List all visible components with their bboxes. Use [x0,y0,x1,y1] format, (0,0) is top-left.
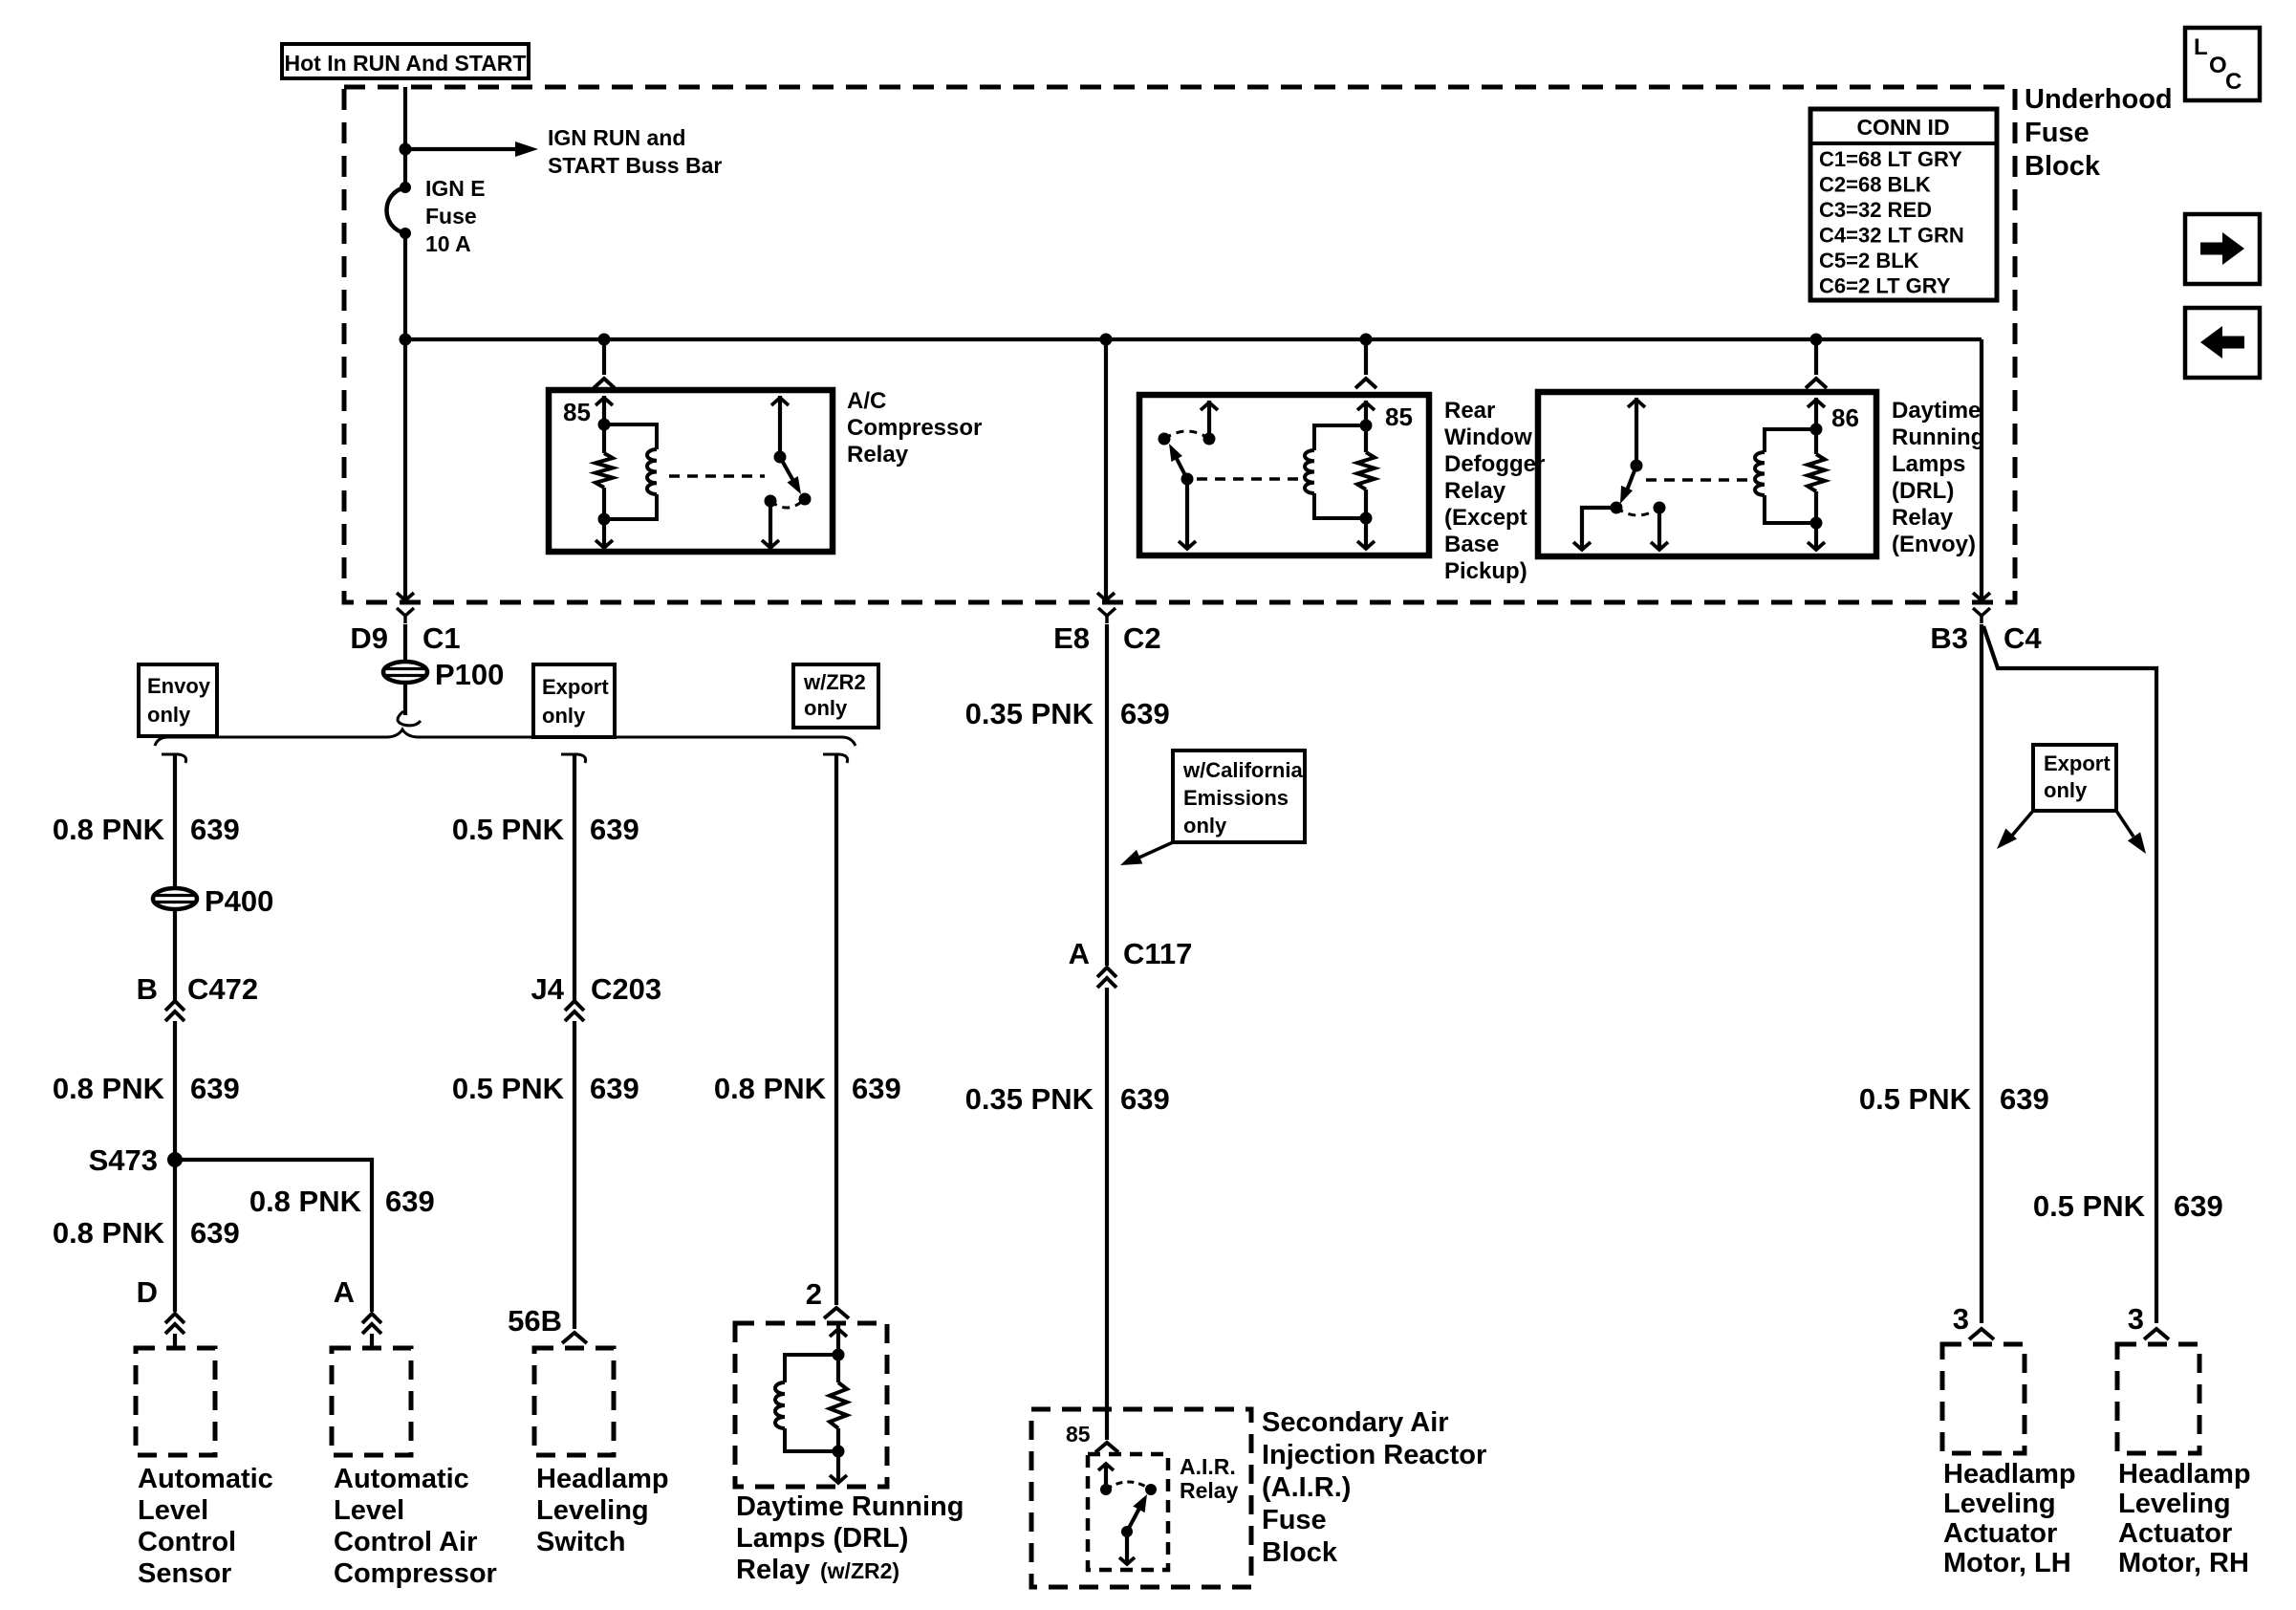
wire: bus right drop to B3 [1980,339,1983,600]
svg-text:O: O [2209,53,2227,78]
svg-text:E8: E8 [1053,621,1090,655]
DRL relay coil bottom node [1810,517,1823,530]
svg-text:0.8 PNK: 0.8 PNK [53,1072,165,1105]
svg-text:CONN ID: CONN ID [1856,115,1949,140]
branch hook (w/ZR2 branch) [823,754,848,763]
splice P100 [383,662,427,683]
svg-text:2: 2 [806,1277,822,1311]
svg-text:A: A [1069,937,1090,970]
svg-text:85: 85 [1385,402,1413,431]
svg-text:B: B [137,972,158,1006]
page locator box L O C [2185,28,2260,100]
svg-text:P100: P100 [435,658,504,691]
defogger relay output wire with down arrow [1185,479,1189,549]
connector D9 C1 at fuse block exit [397,608,414,616]
wire: P100 to branch brace [403,683,407,715]
AIR relay output wire with down arrow [1125,1532,1129,1564]
wire: B3 to headlamp LH actuator [1980,624,1983,1323]
relay box Daytime Running Lamps DRL Relay (Envoy) [1538,392,1876,556]
DRL relay switch pivot node [1631,460,1643,472]
svg-text:639: 639 [1120,697,1170,730]
svg-text:0.8 PNK: 0.8 PNK [249,1185,362,1218]
dashed actuation link (defogger relay) [1197,477,1298,481]
callout box Export only (headlamps) [2033,745,2116,811]
svg-text:0.5 PNK: 0.5 PNK [2033,1189,2146,1223]
svg-text:0.8 PNK: 0.8 PNK [53,813,165,846]
callout arrow right (Export only) [2116,811,2134,837]
callout box Export only [533,664,615,737]
resistor inside A/C relay [602,424,606,453]
AIR relay common node [1121,1526,1133,1537]
wire: drop to E8 [1100,334,1113,346]
page nav box arrow right [2185,214,2260,284]
DRL relay coil pin wire with up arrow [1814,398,1818,429]
svg-text:0.5 PNK: 0.5 PNK [452,1072,565,1105]
svg-text:Hot In RUN And START: Hot In RUN And START [285,51,527,76]
svg-text:0.35 PNK: 0.35 PNK [965,1082,1094,1116]
svg-text:639: 639 [1120,1082,1170,1116]
wire: horizontal bus y=355 [405,337,1982,341]
svg-text:0.35 PNK: 0.35 PNK [965,697,1094,730]
svg-text:639: 639 [590,1072,639,1105]
DRL relay coil loop [1765,429,1816,452]
wire: C203 down to 56B [573,1021,576,1329]
defogger relay switch feed wire with up arrow [1207,401,1211,439]
A/C relay output wire with down arrow [769,501,772,548]
svg-text:Relay: Relay [736,1555,810,1585]
DRL (w/ZR2) relay coil loop [785,1355,838,1382]
svg-text:(w/ZR2): (w/ZR2) [820,1558,899,1583]
DRL relay switch arm [1625,466,1636,495]
wire: C117 down into AIR fuse block [1105,988,1109,1440]
DRL relay coil top node [1810,424,1823,436]
svg-text:P400: P400 [205,884,273,918]
component box Headlamp Leveling Switch [534,1348,614,1455]
svg-text:639: 639 [2000,1082,2049,1116]
svg-text:HeadlampLevelingActuatorMotor,: HeadlampLevelingActuatorMotor, RH [2118,1459,2251,1578]
relay box A.I.R. Relay (dashed) [1088,1454,1168,1570]
svg-text:C203: C203 [591,972,661,1006]
svg-text:C1: C1 [422,621,461,655]
wire: P400 down to C472 [173,909,177,1000]
connector B3 C4 at fuse block exit [1973,608,1990,616]
component box Secondary Air Injection Reactor AIR Fuse Block [1031,1409,1251,1587]
svg-text:D: D [137,1275,158,1309]
A/C relay switch common wire with up arrow [778,396,782,457]
svg-text:639: 639 [190,1216,240,1250]
A/C relay coil return wire with down arrow [602,519,606,548]
wire: main feed from Hot In RUN And START down to D9 [403,87,407,187]
svg-text:S473: S473 [89,1143,158,1177]
defogger relay coil bottom node [1360,512,1373,525]
A/C relay coil top node [598,419,611,431]
component box Daytime Running Lamps DRL Relay (w/ZR2) [735,1323,887,1487]
component box Headlamp Leveling Actuator Motor RH [2117,1344,2199,1453]
A/C relay switch pivot node [774,451,787,464]
svg-text:0.5 PNK: 0.5 PNK [452,813,565,846]
svg-text:HeadlampLevelingActuatorMotor,: HeadlampLevelingActuatorMotor, LH [1943,1459,2076,1578]
dashed throw arc (DRL relay) [1616,508,1659,515]
DRL (w/ZR2) relay pin wire with up arrow [836,1325,840,1355]
wire: branch to DRL relay (Envoy) [1810,334,1823,346]
svg-text:J4: J4 [531,972,565,1006]
Underhood Fuse Block dashed boundary [344,87,2015,602]
dashed actuation link (DRL relay) [1646,478,1751,482]
wire: D9 to splice P100 [403,624,407,662]
pin 85 chevron into AIR fuse block [1095,1443,1118,1452]
svg-text:0.8 PNK: 0.8 PNK [53,1216,165,1250]
page nav box arrow left [2185,308,2260,378]
A/C relay switch contact node [799,493,812,506]
power feed label box "Hot In RUN And START" [282,44,529,78]
branch hook (Export branch) [561,754,586,763]
A/C relay coil loop [604,424,657,449]
junction dot at feed [400,334,412,346]
defogger relay switch arm [1174,453,1187,479]
svg-text:C472: C472 [187,972,258,1006]
svg-text:639: 639 [2174,1189,2223,1223]
svg-text:D9: D9 [350,621,388,655]
svg-text:3: 3 [1953,1302,1969,1336]
splice node S473 [167,1152,183,1167]
dashed throw arc (A/C relay) [770,499,805,508]
resistor inside defogger relay [1364,425,1368,452]
A/C relay coil bottom node [598,513,611,526]
DRL (w/ZR2) relay top node [833,1349,845,1361]
A/C relay coil-side pin wire with up arrow [602,396,606,424]
svg-text:B3: B3 [1930,621,1968,655]
svg-text:C117: C117 [1123,937,1192,970]
svg-text:639: 639 [852,1072,901,1105]
callout arrow left (Export only) [2011,811,2033,837]
splice P400 [153,888,197,909]
AIR relay switch feed arrow [1104,1463,1108,1490]
callout box w/ZR2 only [793,664,878,728]
component box Automatic Level Control Sensor [136,1348,215,1455]
defogger relay switch pivot node [1181,473,1194,486]
wire: E8 down to C117 [1105,624,1109,966]
defogger relay coil top node [1360,420,1373,432]
DRL relay alternate contact node [1654,502,1666,514]
svg-text:0.5 PNK: 0.5 PNK [1859,1082,1972,1116]
svg-text:85: 85 [1066,1422,1091,1447]
wire: S473 down to pin D [173,1160,177,1312]
fuse IGN E 10 A [400,182,411,193]
DRL (w/ZR2) relay return wire with down arrow [836,1451,840,1483]
connector ID table CONN ID [1810,109,1997,300]
junction node on feed wire [400,143,412,156]
DRL relay L-shaped output wire with down arrow [1582,508,1616,550]
svg-text:C1=68 LT GRYC2=68 BLKC3=32 RED: C1=68 LT GRYC2=68 BLKC3=32 REDC4=32 LT G… [1819,147,1964,298]
wire: branch to A/C compressor relay [598,334,611,346]
svg-text:A: A [334,1275,355,1309]
relay box A/C Compressor Relay [549,390,833,552]
defogger relay alternate contact node [1159,433,1171,446]
DRL relay common contact node [1611,502,1623,514]
svg-text:86: 86 [1831,403,1859,432]
wire: C472 down to S473 [173,1021,177,1160]
svg-text:A.I.R.Relay: A.I.R.Relay [1180,1454,1239,1503]
svg-text:639: 639 [385,1185,435,1218]
DRL relay second output wire with down arrow [1657,508,1661,550]
component box Headlamp Leveling Actuator Motor LH [1942,1344,2025,1453]
svg-text:639: 639 [190,1072,240,1105]
svg-text:C: C [2225,69,2242,95]
svg-text:0.8 PNK: 0.8 PNK [714,1072,827,1105]
DRL relay switch feed wire with up arrow [1635,398,1638,466]
svg-text:85: 85 [563,398,591,426]
defogger relay switch contact node [1203,433,1216,446]
dashed throw arc (defogger relay) [1164,431,1209,439]
A/C relay switch arm [780,457,797,488]
AIR relay alternate contact node [1145,1484,1157,1495]
wire: Envoy branch upper segment [173,754,177,888]
A/C relay switch alternate contact node [765,495,777,508]
callout box w/California Emissions only [1173,751,1305,842]
wire: w/ZR2 branch down to DRL relay [834,754,838,1305]
defogger relay coil return wire with down arrow [1364,518,1368,549]
dashed throw arc (AIR relay) [1106,1482,1151,1490]
wire: jog to RH actuator [1983,626,2156,1323]
svg-text:C4: C4 [2004,621,2042,655]
defogger relay coil loop [1314,425,1366,450]
wire arrow to IGN RUN and START Buss Bar [405,147,516,151]
branch brace [155,729,856,746]
component box Automatic Level Control Air Compressor [332,1348,411,1455]
defogger relay coil pin wire with up arrow [1364,401,1368,425]
resistor inside DRL relay [1814,429,1818,454]
svg-text:C2: C2 [1123,621,1161,655]
dashed actuation link (A/C relay) [669,474,765,478]
AIR relay pivot node [1100,1484,1112,1495]
wire: S473 branch to air compressor [175,1160,372,1312]
svg-text:56B: 56B [508,1304,562,1338]
callout arrow to wire [1133,842,1173,860]
relay box Rear Window Defogger Relay [1139,395,1429,555]
svg-text:3: 3 [2128,1302,2144,1336]
wire: branch to rear defogger relay [1360,334,1373,346]
DRL relay coil return wire with down arrow [1814,523,1818,550]
DRL (w/ZR2) relay bottom node [833,1446,845,1458]
svg-text:L: L [2194,34,2208,60]
svg-text:639: 639 [590,813,639,846]
callout box Envoy only [139,664,217,736]
AIR relay switch arm [1127,1501,1143,1532]
branch hook (Envoy branch) [162,754,186,763]
connector E8 C2 at fuse block exit [1098,608,1116,616]
svg-text:639: 639 [190,813,240,846]
resistor inside DRL (w/ZR2) relay [836,1355,840,1382]
wire: Export branch upper segment [573,754,576,1000]
